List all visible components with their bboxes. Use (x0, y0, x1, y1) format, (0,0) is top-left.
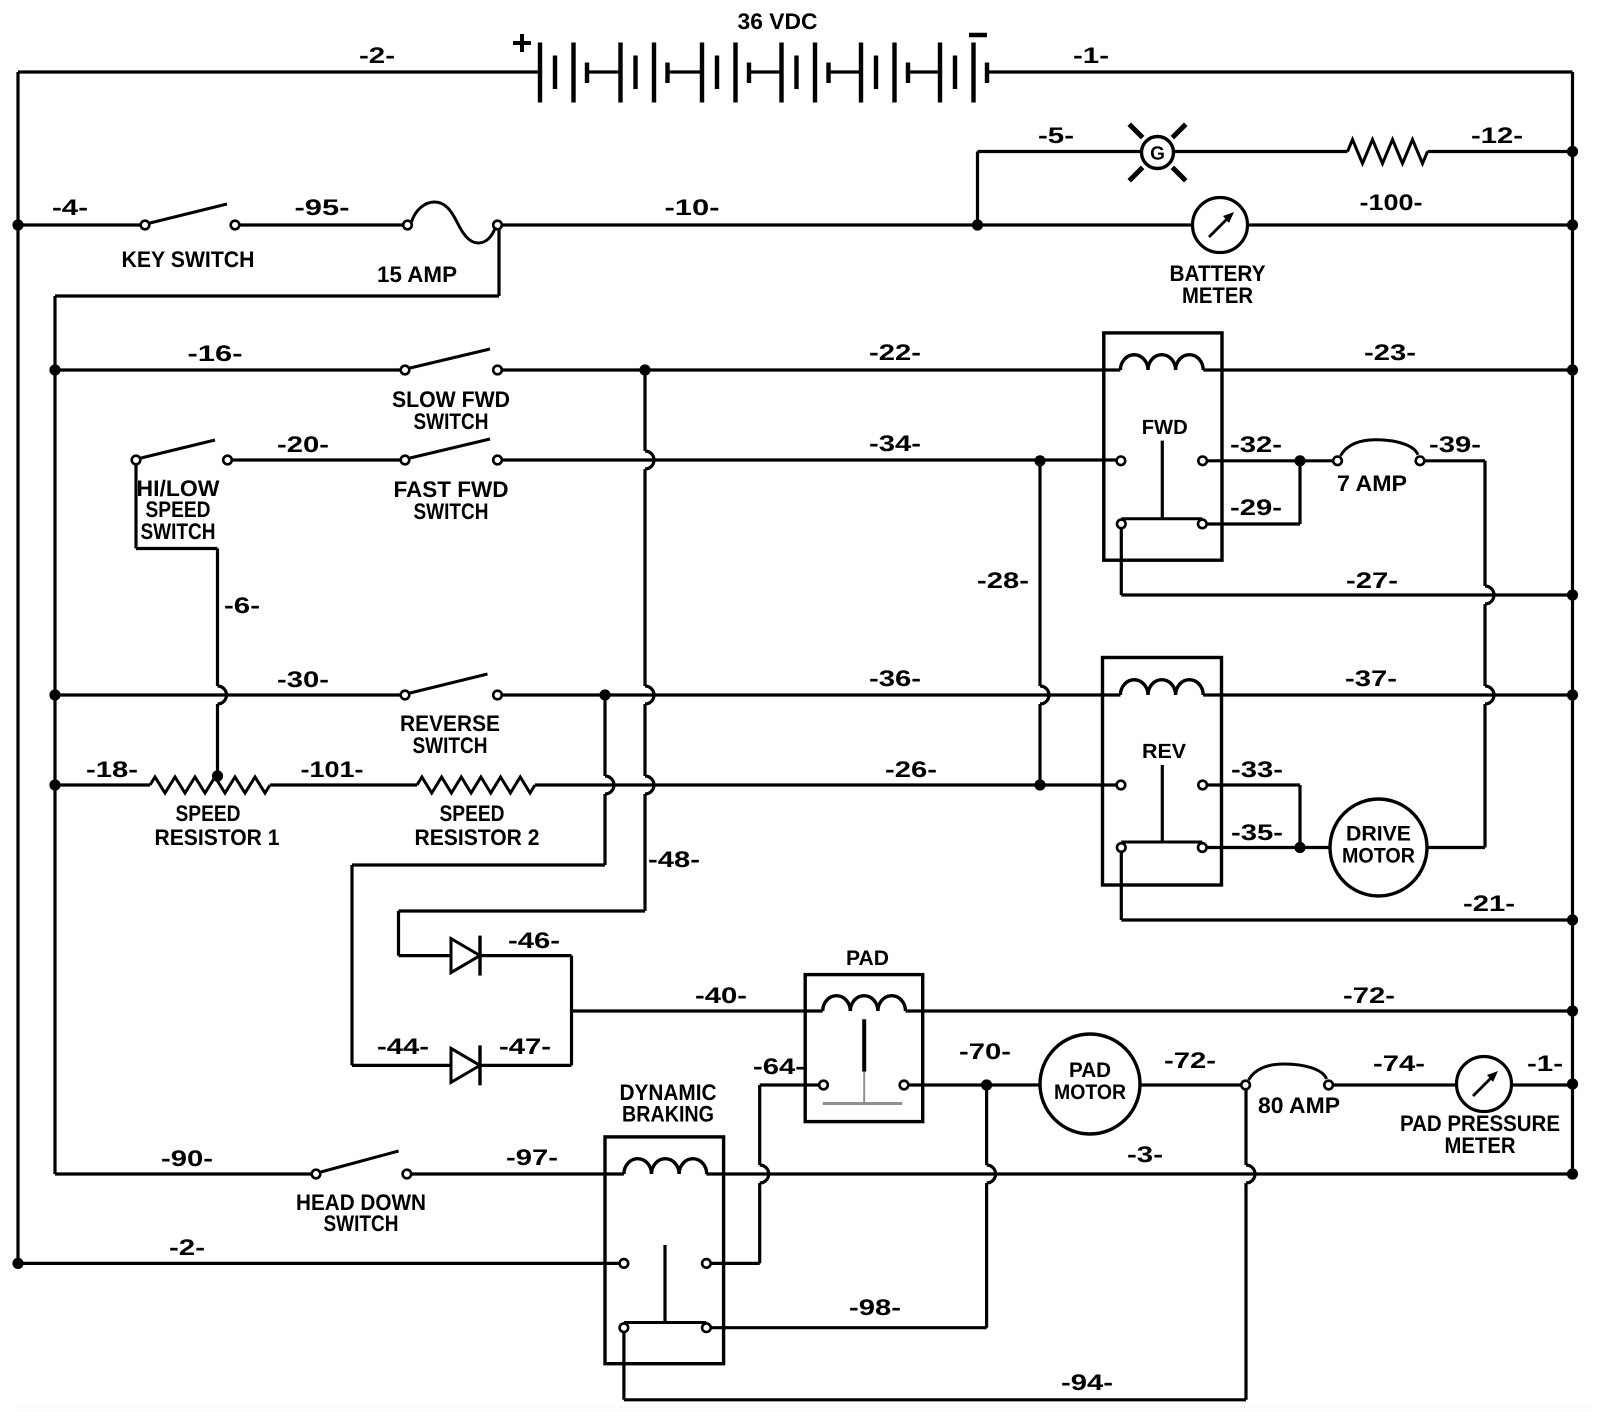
svg-text:-34-: -34- (869, 431, 921, 456)
svg-text:SPEED: SPEED (176, 801, 241, 826)
svg-text:-1-: -1- (1527, 1051, 1563, 1076)
svg-text:-29-: -29- (1230, 495, 1282, 520)
svg-text:-70-: -70- (959, 1039, 1011, 1064)
svg-text:-36-: -36- (869, 666, 921, 691)
svg-text:PAD: PAD (1069, 1059, 1111, 1082)
svg-text:-72-: -72- (1164, 1048, 1216, 1073)
svg-text:7 AMP: 7 AMP (1337, 471, 1407, 496)
svg-text:-101-: -101- (301, 757, 364, 782)
svg-text:-2-: -2- (359, 43, 395, 68)
svg-text:-74-: -74- (1373, 1051, 1425, 1076)
svg-text:36 VDC: 36 VDC (738, 9, 818, 34)
svg-text:G: G (1150, 144, 1165, 165)
svg-text:METER: METER (1445, 1133, 1516, 1158)
svg-text:80 AMP: 80 AMP (1258, 1093, 1340, 1118)
svg-text:-44-: -44- (377, 1034, 429, 1059)
svg-text:SPEED: SPEED (440, 801, 505, 826)
svg-text:-94-: -94- (1061, 1370, 1113, 1395)
svg-text:-10-: -10- (665, 195, 720, 220)
svg-text:-18-: -18- (86, 757, 138, 782)
svg-text:-16-: -16- (188, 341, 243, 366)
svg-text:-12-: -12- (1471, 123, 1523, 148)
svg-text:-30-: -30- (277, 667, 329, 692)
svg-text:-47-: -47- (499, 1034, 551, 1059)
svg-text:SWITCH: SWITCH (413, 733, 488, 758)
svg-text:-22-: -22- (869, 340, 921, 365)
svg-text:RESISTOR 1: RESISTOR 1 (155, 825, 280, 850)
svg-text:-100-: -100- (1360, 190, 1423, 215)
svg-text:-20-: -20- (277, 432, 329, 457)
svg-text:-4-: -4- (52, 195, 88, 220)
svg-text:-35-: -35- (1231, 820, 1283, 845)
svg-text:FWD: FWD (1142, 416, 1188, 439)
svg-text:-27-: -27- (1346, 568, 1398, 593)
svg-text:-46-: -46- (508, 928, 560, 953)
svg-text:-95-: -95- (295, 195, 350, 220)
svg-text:METER: METER (1182, 283, 1253, 308)
svg-text:DRIVE: DRIVE (1346, 823, 1411, 846)
svg-text:SWITCH: SWITCH (414, 499, 489, 524)
svg-text:-28-: -28- (977, 568, 1029, 593)
svg-text:REV: REV (1142, 740, 1186, 763)
svg-text:BRAKING: BRAKING (622, 1102, 714, 1127)
svg-text:SWITCH: SWITCH (141, 519, 216, 544)
svg-text:-2-: -2- (169, 1235, 205, 1260)
svg-text:-72-: -72- (1343, 983, 1395, 1008)
svg-text:-21-: -21- (1463, 891, 1515, 916)
svg-text:-48-: -48- (648, 847, 700, 872)
svg-text:MOTOR: MOTOR (1054, 1081, 1126, 1104)
svg-text:-6-: -6- (224, 593, 260, 618)
svg-text:-40-: -40- (695, 983, 747, 1008)
svg-text:-97-: -97- (506, 1145, 558, 1170)
svg-text:-90-: -90- (161, 1146, 213, 1171)
svg-text:-32-: -32- (1230, 432, 1282, 457)
svg-text:-33-: -33- (1231, 757, 1283, 782)
svg-text:-64-: -64- (753, 1054, 805, 1079)
svg-text:-26-: -26- (885, 757, 937, 782)
svg-text:-98-: -98- (849, 1295, 901, 1320)
svg-text:-37-: -37- (1345, 666, 1397, 691)
svg-text:RESISTOR 2: RESISTOR 2 (415, 825, 540, 850)
svg-text:-3-: -3- (1127, 1142, 1163, 1167)
svg-text:PAD: PAD (846, 947, 889, 970)
svg-text:-1-: -1- (1073, 43, 1109, 68)
svg-text:-5-: -5- (1038, 123, 1074, 148)
svg-text:15 AMP: 15 AMP (377, 262, 457, 287)
svg-text:KEY SWITCH: KEY SWITCH (122, 247, 255, 272)
svg-text:SWITCH: SWITCH (414, 409, 489, 434)
svg-text:MOTOR: MOTOR (1342, 845, 1415, 868)
svg-text:-23-: -23- (1364, 340, 1416, 365)
svg-text:SWITCH: SWITCH (324, 1211, 399, 1236)
svg-text:-39-: -39- (1429, 432, 1481, 457)
